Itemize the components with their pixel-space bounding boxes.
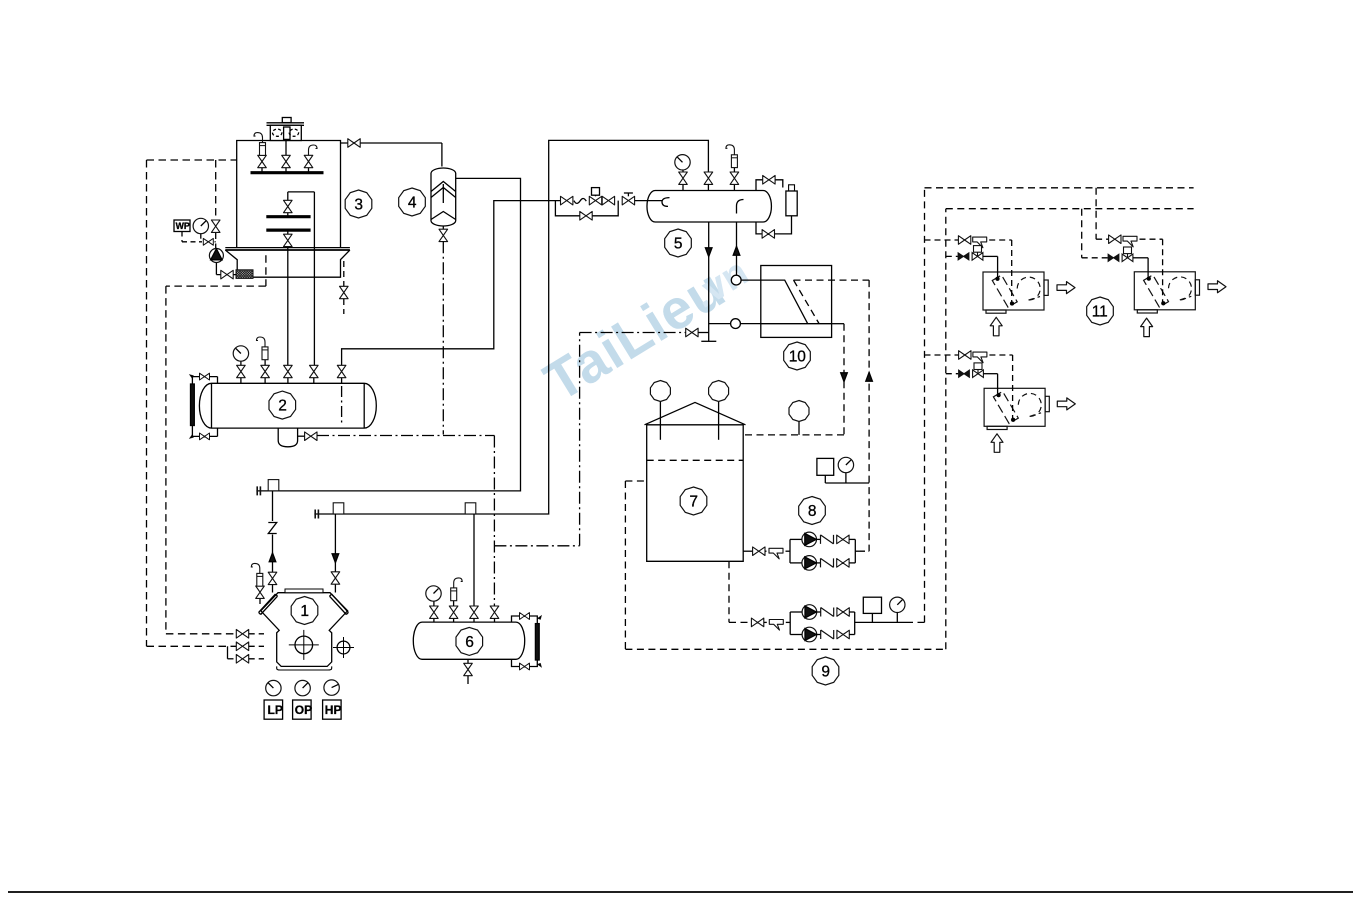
unitB in arrow <box>1141 318 1153 337</box>
chilled supply main dashed <box>925 188 1194 623</box>
discharge riser junction box <box>333 503 344 514</box>
octagon tag 2 <box>269 391 296 419</box>
vessel2 relief <box>257 337 269 360</box>
dashed rows to compressor row2 <box>236 642 264 651</box>
unitA liquid branch <box>946 246 998 277</box>
pump9 discharge <box>855 621 925 623</box>
HP label box <box>323 700 342 719</box>
liquid station valve2 <box>602 196 614 205</box>
unitB hot-gas branch <box>1096 235 1163 302</box>
svg-text:7: 7 <box>689 494 698 511</box>
valve on tower inlet line <box>348 139 360 148</box>
vessel6 gauge <box>426 586 441 601</box>
basin suction strainer <box>236 270 253 279</box>
evaporative condenser tower shell (item 3) <box>237 141 341 248</box>
pump9 manifolds <box>790 612 855 635</box>
suction line vessel4 to compressor <box>256 178 520 495</box>
dashed rows to compressor row1 <box>236 630 264 639</box>
vessel2 valve1 <box>237 361 246 383</box>
WP gauge <box>193 218 208 233</box>
vessel6 valve4 dash-dot riser <box>490 606 499 622</box>
intercooler vessel (item 6) <box>413 622 524 659</box>
spray valve a <box>258 154 267 173</box>
HX chilled outlet to tank <box>743 324 847 435</box>
tower fan deck plates <box>267 123 305 126</box>
svg-text:OP: OP <box>295 703 312 717</box>
tank instrument bubble 2 <box>709 381 729 440</box>
air cooler unit C <box>984 388 1049 429</box>
valve above tower pump <box>211 220 220 232</box>
dashed water line to pump <box>215 160 217 249</box>
vessel6 relief <box>451 578 463 601</box>
compressor flywheel <box>289 630 319 660</box>
vessel6 sight glass bottom <box>512 659 542 670</box>
unitA in arrow <box>990 317 1002 336</box>
svg-text:LP: LP <box>268 703 283 717</box>
vent hook above spray valve c <box>309 145 318 155</box>
separator chevrons <box>431 182 456 220</box>
compressor body (item 1) <box>261 593 348 667</box>
svg-text:3: 3 <box>354 197 363 214</box>
octagon tag 10 <box>784 342 811 370</box>
pump group 9 suction <box>729 561 790 630</box>
vessel5 liquid drop leg <box>701 222 716 341</box>
separator outlet valve <box>439 227 448 242</box>
float switch chamber <box>786 185 797 216</box>
vessel6 valve1 <box>430 601 439 623</box>
svg-text:11: 11 <box>1092 304 1108 321</box>
plate heat exchanger (item 10) <box>761 266 832 338</box>
vessel6 drain valve <box>464 659 473 684</box>
svg-text:9: 9 <box>821 664 830 681</box>
HX internals <box>761 280 869 324</box>
pump 8b branch <box>790 556 855 571</box>
svg-text:2: 2 <box>278 398 287 415</box>
svg-text:5: 5 <box>674 236 683 253</box>
vessel5 vapor return leg <box>733 222 740 275</box>
octagon tag 1 <box>291 597 318 625</box>
compressor discharge riser <box>331 514 340 593</box>
vessel5 gauge <box>675 155 690 170</box>
unitA out arrow <box>1057 282 1075 294</box>
unitA hot-gas branch <box>925 236 1012 302</box>
OP gauge <box>295 680 310 695</box>
compressor top plate <box>285 589 323 593</box>
compressor relief assembly <box>251 563 264 604</box>
vessel5 internal dip hook <box>737 200 744 214</box>
loop9 return dashed <box>625 209 945 650</box>
octagon tag 9 <box>812 657 839 685</box>
sight glass bottom valve <box>189 428 217 440</box>
octagon tag 6 <box>456 627 483 655</box>
sump drain valve <box>298 432 317 441</box>
liquid station bypass <box>555 201 618 221</box>
pump8 discharge to HX <box>855 550 869 552</box>
inner dashed control loop <box>166 255 266 634</box>
OP label box <box>293 700 313 719</box>
liquid station isolating valve <box>561 196 573 205</box>
liquid station globe valve <box>622 193 634 205</box>
vessel2 internal dip dash <box>341 386 343 424</box>
svg-text:4: 4 <box>408 195 417 212</box>
octagon tag 11 <box>1087 297 1114 325</box>
unitB out arrow <box>1208 281 1226 293</box>
pump 9a branch <box>790 605 855 620</box>
vessel5 float column top pipe <box>756 176 783 191</box>
tower water pump <box>209 249 223 263</box>
valve pump suction <box>221 270 233 279</box>
WP dashed connections <box>182 232 216 242</box>
pump 9b branch <box>790 627 855 642</box>
vessel2 valve5 <box>337 365 346 383</box>
unitB liquid branch <box>1082 247 1148 277</box>
LP label box <box>264 700 283 719</box>
coil inlet valve <box>284 192 293 217</box>
compressor right head slab <box>330 594 349 614</box>
oil drain dash-dot network <box>317 333 686 606</box>
compressor base plate <box>277 666 332 670</box>
condenser coil top header <box>288 191 315 193</box>
vessel2 valve3 <box>284 365 293 383</box>
vessel2 valve4 <box>310 365 319 383</box>
svg-text:8: 8 <box>808 503 817 520</box>
separator oil drain dash-dot <box>442 241 444 434</box>
air cooler unit B <box>1134 272 1199 313</box>
compressor left head slab <box>259 594 278 614</box>
compressor shaft end <box>333 637 354 658</box>
svg-text:WP: WP <box>176 221 190 231</box>
svg-text:6: 6 <box>465 634 474 651</box>
vessel2 sight glass column <box>191 377 195 437</box>
HP gauge <box>324 680 339 695</box>
pump outlet to strainer <box>216 263 236 275</box>
oil drain valve to vessel5 leg <box>686 328 709 337</box>
vessel5 relief <box>726 145 738 168</box>
coil bars <box>266 217 310 230</box>
unitC out arrow <box>1057 398 1075 410</box>
basin blowdown valve <box>340 261 349 314</box>
pump8 manifolds <box>790 539 855 563</box>
tank liquid level dashed <box>647 459 744 461</box>
loop9 pressure switch <box>863 597 881 622</box>
relief on spray header <box>254 133 266 156</box>
tower fan housing <box>270 125 301 140</box>
spray valve c <box>304 155 313 173</box>
tower hot-gas inlet line <box>341 143 442 167</box>
tank instrument bubble 3 <box>789 401 809 435</box>
compressor discharge line to condenser <box>314 140 708 518</box>
vessel6 valve3 riser <box>470 514 479 622</box>
suction riser junction box <box>268 480 279 491</box>
liquid station solenoid valve <box>589 188 601 205</box>
vessel6 sight glass top <box>512 613 542 624</box>
loop8 pressure switch <box>817 458 869 483</box>
HX warm inlet from pumps <box>866 280 873 551</box>
liquid line vessel2 to vessel5 <box>342 201 662 366</box>
pump group 8 suction <box>743 547 790 559</box>
vessel5 valve3 <box>730 168 739 191</box>
svg-text:HP: HP <box>325 703 342 717</box>
svg-text:1: 1 <box>300 603 309 620</box>
vessel2 gauge <box>233 346 248 361</box>
unitC liquid branch <box>946 363 998 393</box>
WP controller box <box>174 220 190 232</box>
unitC hot-gas branch <box>925 351 1013 419</box>
vessel6 valve2 <box>449 601 458 622</box>
watermark TaiLieu.vn <box>533 251 755 414</box>
riser tower coil to vessel 2 valve3 <box>287 250 289 366</box>
pump 8a branch <box>790 532 855 547</box>
tower fan motor <box>282 118 291 123</box>
vessel2 oil sump <box>278 428 297 447</box>
liquid station strainer trap <box>574 198 586 203</box>
oil separator vessel (item 4) <box>431 168 456 226</box>
HX top port node <box>731 275 761 285</box>
basin deck <box>225 248 350 250</box>
riser tower coil to vessel 2 valve4 <box>313 192 315 366</box>
spray valve b <box>282 141 291 173</box>
spray header bar <box>251 171 324 174</box>
vessel6 riser junction box <box>465 503 476 514</box>
vessel6 sight glass column <box>535 624 539 660</box>
vessel5 valve1 <box>679 170 688 191</box>
octagon tag 8 <box>799 497 826 525</box>
receiver vessel (item 2) <box>199 383 376 428</box>
air cooler unit A <box>983 272 1048 313</box>
sight glass top valve <box>189 373 217 383</box>
svg-text:10: 10 <box>789 349 807 366</box>
HX bottom port node <box>709 319 761 329</box>
compressor suction riser <box>268 491 277 593</box>
loop8 gauge <box>838 457 853 483</box>
octagon tag 7 <box>680 487 707 515</box>
coil outlet valve <box>284 230 293 250</box>
unitB supply risers <box>1082 188 1096 258</box>
vessel5 float column bottom pipe <box>756 216 792 238</box>
vessel5 valve2 <box>704 172 713 191</box>
loop9 gauge <box>890 597 905 622</box>
octagon tag 4 <box>399 188 426 216</box>
page bottom border <box>8 891 1353 893</box>
tank instrument bubble 1 <box>650 381 670 440</box>
LP gauge <box>266 680 281 695</box>
octagon tag 3 <box>345 190 372 218</box>
WP line valve <box>203 238 213 245</box>
vessel2 valve2 <box>261 360 270 384</box>
vessel5 inlet hook <box>662 198 670 207</box>
high pressure receiver (item 5) <box>647 191 771 223</box>
outer dashed control loop <box>147 160 237 646</box>
dashed rows to compressor row3 <box>228 646 265 663</box>
unitC in arrow <box>991 434 1003 453</box>
octagon tag 5 <box>665 229 692 257</box>
brine tank (item 7) <box>645 402 746 561</box>
basin walls <box>225 250 350 277</box>
